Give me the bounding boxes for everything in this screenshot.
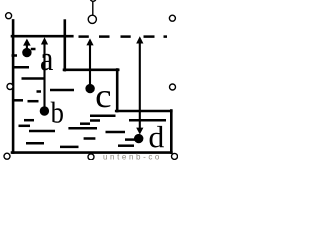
svg-text:untenb-co: untenb-co [103,153,162,161]
